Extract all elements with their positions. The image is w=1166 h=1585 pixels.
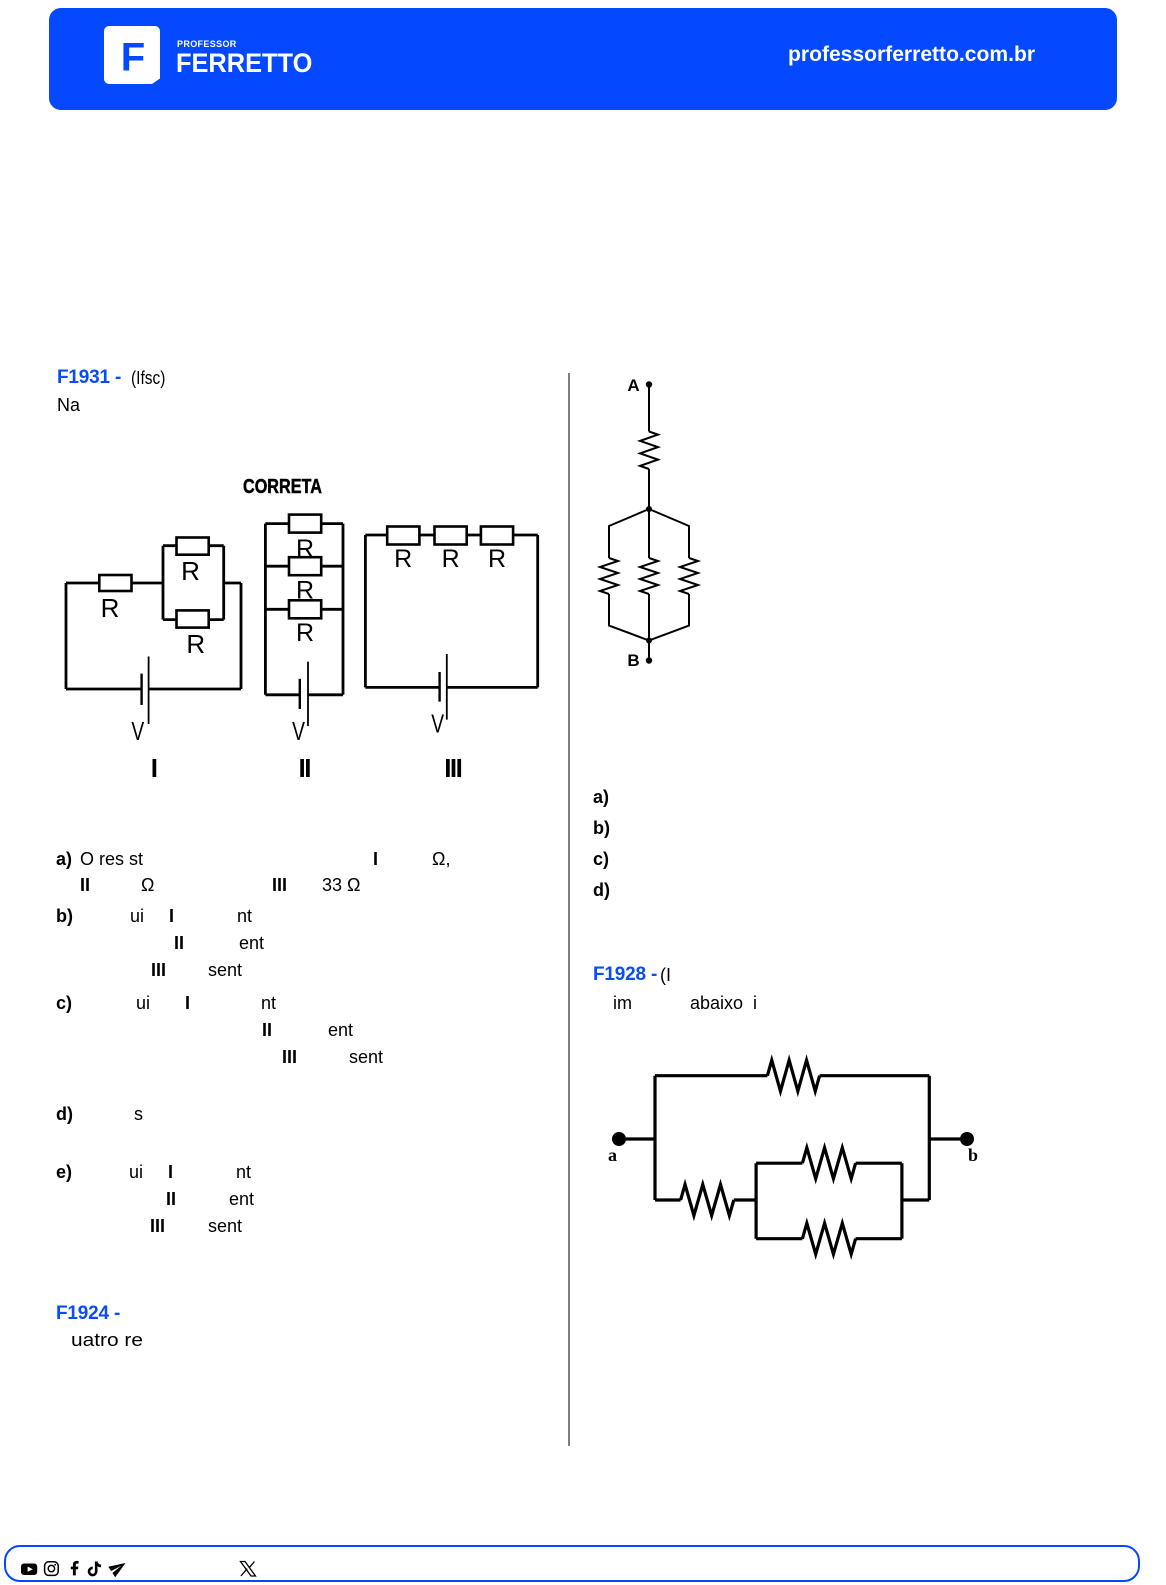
footer bar <box>4 1545 1140 1582</box>
svg-text:V: V <box>131 716 144 746</box>
svg-text:V: V <box>431 709 444 739</box>
svg-text:B: B <box>627 651 639 670</box>
tiktok icon <box>89 1562 101 1576</box>
resistor R left circuit III <box>387 527 419 545</box>
wire to inner box <box>734 1198 756 1201</box>
wire inner top edge right <box>856 1162 902 1165</box>
resistor left parallel A-B <box>600 558 618 594</box>
resistor inner bottom a-b <box>802 1223 855 1254</box>
facebook icon <box>71 1561 79 1576</box>
question F1928 heading <box>593 965 657 984</box>
resistor middle parallel A-B <box>640 558 658 594</box>
wire to top junction <box>648 469 650 509</box>
wire middle branch lower <box>648 594 650 641</box>
wire bottom branch left <box>655 1198 681 1201</box>
wire right bus <box>928 1076 931 1200</box>
node b terminal dot <box>960 1132 974 1146</box>
wire inner bottom edge left <box>756 1237 802 1240</box>
wire inner box right edge <box>900 1163 903 1239</box>
label V circuit II <box>292 716 305 746</box>
resistor R bottom parallel circuit I <box>177 610 209 627</box>
option e <box>56 1163 72 1181</box>
wire top branch left <box>655 1074 767 1077</box>
resistor R right circuit III <box>481 527 513 545</box>
label V circuit III <box>431 709 444 739</box>
wire circuit I outer loop <box>66 583 241 689</box>
svg-text:R: R <box>101 593 120 623</box>
option a line1 <box>56 850 72 868</box>
svg-text:R: R <box>442 545 460 573</box>
svg-text:R: R <box>394 545 412 573</box>
wire inner box to right bus <box>902 1198 929 1201</box>
column divider <box>568 373 570 1446</box>
svg-text:R: R <box>296 619 314 647</box>
site url <box>788 44 1035 66</box>
footer icons <box>0 1545 300 1585</box>
wire from A down <box>648 385 650 432</box>
CORRETA label <box>243 477 322 497</box>
resistor R top circuit II <box>289 515 321 533</box>
resistor inner top a-b <box>802 1148 855 1179</box>
wire top branch right <box>820 1074 930 1077</box>
wire inner bottom edge right <box>856 1237 902 1240</box>
svg-text:R: R <box>296 576 314 604</box>
wire right branch upper <box>649 509 689 558</box>
resistor right parallel A-B <box>680 558 698 594</box>
wire right branch lower <box>649 594 689 641</box>
svg-text:A: A <box>627 376 639 395</box>
wire left bus <box>653 1076 656 1200</box>
wire middle branch upper <box>648 509 650 558</box>
option b <box>56 907 73 925</box>
battery V circuit I <box>142 657 149 725</box>
svg-text:R: R <box>488 545 506 573</box>
node B terminal dot <box>646 657 652 663</box>
wire parallel section buses circuit I <box>163 546 224 620</box>
svg-text:V: V <box>292 716 305 746</box>
youtube icon <box>21 1564 37 1576</box>
instagram icon <box>45 1562 59 1576</box>
wire circuit II rectangle and rails <box>265 524 343 695</box>
option c <box>56 994 72 1012</box>
wire inner box left edge <box>754 1163 757 1239</box>
telegram icon <box>108 1558 129 1577</box>
resistor series A-B <box>640 432 658 470</box>
svg-text:III: III <box>444 753 461 783</box>
resistor R middle circuit III <box>435 527 467 545</box>
logo wordmark <box>177 40 237 49</box>
right column options <box>593 788 609 806</box>
wire left branch lower <box>609 594 649 641</box>
svg-text:R: R <box>186 629 205 659</box>
svg-text:II: II <box>298 753 310 783</box>
wire a to left bus <box>626 1137 655 1140</box>
wire to B <box>648 641 650 661</box>
x (twitter) icon <box>241 1562 256 1577</box>
resistor R top parallel circuit I <box>177 538 209 555</box>
resistor R bottom circuit II <box>289 600 321 618</box>
logo F square <box>104 26 161 85</box>
svg-text:I: I <box>151 753 157 783</box>
resistor bottom left a-b <box>681 1185 734 1216</box>
wire circuit III rectangle <box>365 535 537 687</box>
wire right bus to b <box>929 1137 960 1140</box>
header bar <box>49 8 1117 110</box>
resistor top branch a-b <box>767 1060 819 1091</box>
node bottom junction dot <box>646 638 652 644</box>
node a terminal dot <box>612 1132 626 1146</box>
resistor R series circuit I <box>99 575 131 591</box>
node A terminal dot <box>646 381 652 387</box>
resistor R middle circuit II <box>289 557 321 575</box>
svg-text:a: a <box>608 1145 617 1165</box>
option d <box>56 1105 73 1123</box>
svg-text:b: b <box>968 1145 978 1165</box>
label V circuit I <box>131 716 144 746</box>
option a line2 <box>80 876 90 894</box>
question F1931 heading <box>57 368 121 387</box>
battery V circuit III <box>440 654 447 720</box>
svg-text:R: R <box>296 535 314 563</box>
question F1924 heading <box>56 1304 120 1323</box>
battery V circuit II <box>300 662 308 726</box>
wire left branch upper <box>609 509 649 558</box>
svg-text:R: R <box>181 556 200 586</box>
wire inner top edge left <box>756 1162 802 1165</box>
node top junction dot <box>646 506 652 512</box>
